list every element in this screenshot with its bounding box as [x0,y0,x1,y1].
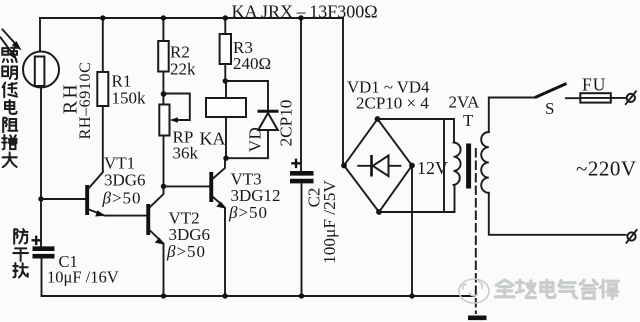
svg-text:10μF /16V: 10μF /16V [47,268,119,287]
photoresistor RH body [35,57,45,87]
char fang [14,229,27,244]
svg-text:T: T [463,111,474,130]
wire C1 to bottom rail [41,259,43,297]
wire VT3 base [164,185,210,187]
wire R2 to RP [162,72,164,105]
svg-text:β>50: β>50 [228,203,268,222]
svg-text:2VA: 2VA [449,93,481,112]
watermark logo circle [459,279,489,303]
char gan [13,248,28,261]
wire bridge top to transformer [378,119,455,212]
bridge inner diode [358,155,400,177]
resistor R2 [158,41,169,72]
potentiometer RP body [159,105,169,136]
wire switch to fuse [566,97,580,99]
char dian [5,100,17,114]
svg-text:3DG6: 3DG6 [104,171,146,190]
node VT2 emitter bottom [161,293,166,298]
bridge node right [409,163,415,169]
bridge node bottom [376,209,382,215]
diode VD branch wire [225,81,268,110]
capacitor C1 plates [33,246,55,251]
node VT3 emitter bottom [222,293,227,298]
bridge rectifier outline [344,119,412,212]
resistor R2 top wire [162,18,164,41]
svg-text:RH–6910C: RH–6910C [77,62,94,140]
wire bridge bottom to transformer [379,185,455,212]
wire RP bottom to VT2 collector node [163,136,165,187]
node C2 top [298,15,303,20]
svg-text:β>50: β>50 [166,242,206,261]
char di [3,83,17,98]
svg-text:36k: 36k [173,144,199,163]
relay coil KA [206,98,246,117]
svg-text:FU: FU [582,75,606,95]
svg-text:KA: KA [200,129,226,149]
char da [3,153,17,168]
char rao [13,263,27,277]
transistor VT1 [41,172,106,217]
svg-text:22k: 22k [170,60,196,79]
wire VD bottom [226,130,268,158]
wire VT1 emitter to VT2 base [105,215,147,217]
svg-text:VD: VD [246,127,265,153]
bridge node left [341,163,347,169]
node VT2 collector VT3 base [161,184,166,189]
wire bridge right to bottom rail [411,166,413,297]
light arrow 2 [1,38,18,61]
svg-text:100μF /25V: 100μF /25V [320,180,339,264]
relay coil KA wire top [225,81,227,98]
capacitor C2 plates [290,171,314,176]
terminal top right [626,91,636,104]
potentiometer RP wiper hook [164,94,190,123]
node KA VD VT3 collector [223,156,228,161]
svg-text:~220V: ~220V [576,157,637,181]
node R3 top [223,15,228,20]
terminal bottom right [627,230,637,243]
svg-text:150k: 150k [112,89,147,108]
svg-text:2CP10 × 4: 2CP10 × 4 [356,94,429,113]
char ming [2,67,17,80]
node R3 KA VD junction [223,78,228,83]
node R2 top [161,15,166,20]
transistor VT3 [209,158,226,296]
node R1 top [100,15,105,20]
svg-text:2CP10: 2CP10 [277,100,296,147]
switch S blade [535,84,567,98]
node R2 RP wiper junction [161,91,167,97]
diode VD triangle [258,113,278,130]
svg-text:240Ω: 240Ω [233,54,271,73]
transformer core [466,144,471,189]
wire C2 bottom [301,184,303,297]
ground chassis bar [468,315,487,320]
wire primary bottom to terminal [489,193,626,235]
wire left vertical below RH [40,88,42,247]
transformer primary winding [481,132,489,193]
capacitor C2 top wire [300,18,302,171]
transformer secondary winding [454,143,461,186]
svg-text:β>50: β>50 [102,189,142,208]
wire top rail [40,17,343,19]
char zu [3,118,17,132]
watermark text [495,280,618,299]
char zhao [2,48,17,62]
light arrow 1 [3,30,22,51]
node VT1 base junction [38,196,43,201]
wire fuse to terminal [611,97,627,99]
svg-text:S: S [545,99,554,118]
wire R1 to VT1 collector [102,106,104,172]
wire R3 bottom [224,64,226,81]
wire rail to bridge left [342,18,344,166]
fuse FU [580,93,611,102]
label vertical 防干扰 [13,229,28,277]
photoresistor RH circle [23,52,59,88]
wire bottom rail [42,295,475,297]
resistor R3 top wire [224,18,226,34]
transistor VT2 [146,186,165,296]
diode VD cathode bar [258,110,279,113]
node C2 bottom [299,293,304,298]
capacitor C1 plus sign [32,236,42,246]
resistor R1 [97,72,108,106]
wire KA bottom [225,117,227,158]
wire left drop to photoresistor [39,18,41,52]
wire primary top to switch [489,98,535,133]
transformer screen dashed line [475,149,477,313]
bridge node top [375,116,381,122]
char zeng [2,135,16,149]
resistor R3 [220,34,231,64]
node bridge bottom rail [409,293,414,298]
resistor R1 top wire [102,18,104,72]
capacitor C2 plus [291,159,301,169]
label vertical 照明低电阻增大 [2,48,17,167]
